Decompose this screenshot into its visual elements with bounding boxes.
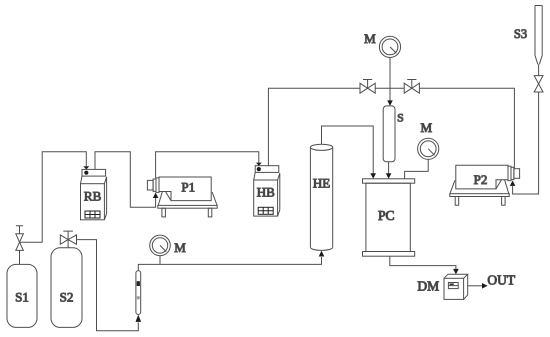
wire HE top to PC top bbox=[322, 126, 374, 174]
arrow into PC top from HE bbox=[370, 173, 376, 179]
svg-text:OUT: OUT bbox=[487, 272, 515, 287]
wire S2 valve to flow meter bottom bbox=[77, 240, 139, 331]
arrow into HE bottom bbox=[319, 251, 325, 257]
gauge M2 bbox=[150, 235, 171, 256]
svg-text:S1: S1 bbox=[15, 290, 29, 305]
arrow into S top bbox=[387, 100, 393, 106]
wire gauge M2 stem bbox=[159, 256, 161, 265]
wire S1 valve to RB check valve bbox=[20, 152, 87, 243]
wire PC bottom to DM bbox=[390, 256, 456, 269]
flow meter bbox=[136, 271, 141, 315]
svg-text:S: S bbox=[397, 111, 404, 125]
valve on S2 bbox=[63, 231, 73, 248]
gauge M3 bbox=[418, 138, 439, 159]
check valve into HB bbox=[256, 163, 262, 166]
wire S bottom to PC top bbox=[388, 162, 390, 174]
arrow into flow meter bottom bbox=[136, 315, 142, 322]
arrow OUT bbox=[482, 283, 488, 289]
svg-text:DM: DM bbox=[417, 278, 439, 293]
wire RB outlet to P1 inlet bbox=[95, 152, 156, 207]
arrow into P2 inlet bbox=[510, 181, 516, 186]
wire gauge M3 to PC top bbox=[405, 159, 429, 178]
svg-text:M: M bbox=[364, 31, 376, 46]
gauge M1 bbox=[379, 36, 400, 57]
burette S3 bbox=[534, 6, 543, 93]
wire gauge M1 down to column S bbox=[389, 58, 391, 101]
cylinder S1 bbox=[7, 264, 37, 327]
svg-text:HE: HE bbox=[313, 176, 330, 191]
column HE bbox=[310, 144, 332, 250]
wire V2 to P2 coupling top bbox=[419, 88, 514, 169]
bath RB bbox=[81, 169, 107, 219]
svg-text:M: M bbox=[174, 240, 186, 255]
reactor PC bbox=[363, 179, 415, 256]
wire P1 outlet to HB check valve bbox=[156, 152, 259, 178]
svg-text:P1: P1 bbox=[181, 180, 195, 195]
pump P2 bbox=[450, 165, 520, 205]
svg-text:S2: S2 bbox=[60, 290, 74, 305]
check valve into RB bbox=[83, 166, 89, 169]
column S bbox=[383, 106, 395, 162]
wire flow meter top to HE bottom bbox=[138, 257, 321, 271]
bath HB bbox=[254, 166, 280, 216]
wire HB outlet to valve V1 bbox=[268, 88, 360, 166]
arrow into PC top from S bbox=[386, 173, 392, 179]
svg-text:HB: HB bbox=[257, 185, 275, 200]
arrow into P1 inlet bbox=[153, 193, 159, 199]
svg-text:PC: PC bbox=[378, 208, 395, 223]
wire DM to OUT bbox=[468, 285, 483, 287]
meter DM bbox=[444, 274, 468, 299]
svg-text:S3: S3 bbox=[514, 27, 527, 41]
valve V1 bbox=[360, 80, 375, 94]
pump P1 bbox=[147, 177, 217, 217]
valve V2 bbox=[404, 80, 419, 94]
wire S3 valve to P2 inlet bbox=[513, 92, 539, 194]
svg-text:M: M bbox=[421, 120, 433, 135]
svg-text:RB: RB bbox=[84, 188, 102, 203]
cylinder S2 bbox=[51, 248, 82, 328]
arrow into DM top bbox=[453, 269, 459, 275]
valve on S1 bbox=[16, 226, 23, 265]
wire V1 to V2 through junction bbox=[375, 87, 404, 89]
svg-text:P2: P2 bbox=[474, 172, 488, 187]
